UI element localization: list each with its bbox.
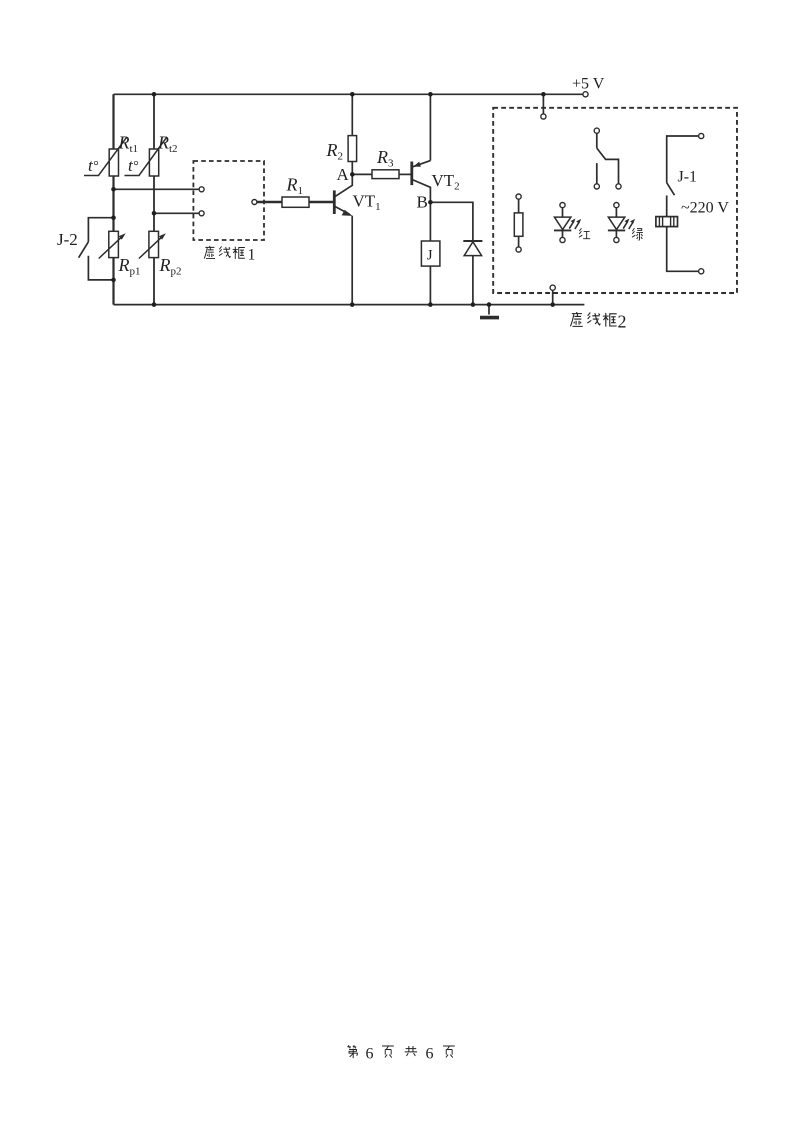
footer page number — [348, 1045, 455, 1062]
wire left bus vertical — [112, 94, 114, 304]
svg-text:J-2: J-2 — [57, 230, 78, 249]
resistor R4 in box2 — [514, 213, 523, 236]
wire R3 to VT2 base — [399, 173, 411, 175]
relay contact K left stub — [596, 163, 598, 184]
terminal box2 bottom — [550, 285, 555, 290]
terminal box1 in1 — [199, 187, 204, 192]
switch J-1 wiring — [667, 136, 699, 271]
terminal contact K right — [616, 184, 621, 189]
wire tap 2 to box1 — [154, 212, 199, 214]
resistor R3 — [372, 170, 399, 179]
terminal J-1 top — [699, 133, 704, 138]
ground — [480, 316, 499, 320]
wire VT1 collector — [335, 174, 353, 196]
wire node B to diode branch — [430, 202, 473, 241]
thermistor Rt2 — [125, 137, 168, 176]
svg-text:Rp2: Rp2 — [159, 255, 182, 278]
node top rail bus2 — [152, 92, 157, 97]
svg-text:6: 6 — [366, 1046, 374, 1063]
wire diode bottom lead — [472, 242, 474, 305]
wire box2 bottom stub — [552, 290, 554, 304]
wire bottom rail — [114, 304, 585, 306]
label frame2 (xu xian kuang 2) — [570, 312, 626, 332]
svg-text:VT1: VT1 — [353, 192, 381, 214]
node top rail box2 stub — [541, 92, 546, 97]
svg-text:t°: t° — [88, 156, 99, 175]
node bottom ground — [487, 302, 492, 307]
wire second bus vertical — [153, 94, 155, 304]
potentiometer Rp1 — [99, 231, 126, 258]
svg-text:R3: R3 — [376, 147, 394, 170]
resistor R2 — [348, 136, 357, 162]
terminal LED red top — [560, 203, 565, 208]
relay coil J — [421, 241, 440, 266]
node top rail VT2 emitter — [428, 92, 433, 97]
svg-text:6: 6 — [426, 1046, 434, 1063]
thermistor Rt1 — [84, 137, 127, 176]
relay contact K blade — [597, 148, 619, 184]
potentiometer Rp2 — [139, 231, 166, 258]
svg-text:Rt1: Rt1 — [118, 133, 139, 156]
relay contact K top lead — [596, 133, 598, 148]
wire tap 1 to box1 — [114, 188, 200, 190]
dashed frame 1 — [193, 161, 264, 240]
node bottom box2 stub — [550, 302, 555, 307]
svg-text:J-1: J-1 — [678, 169, 698, 186]
node tap2 — [152, 211, 157, 216]
wire VT1 emitter — [335, 206, 353, 304]
LED green — [608, 217, 635, 230]
label red (hong) — [579, 228, 590, 238]
svg-text:2: 2 — [618, 312, 627, 332]
svg-text:A: A — [337, 165, 350, 184]
wire input to R1 — [257, 201, 282, 203]
wire R1 to VT1 base — [309, 201, 333, 203]
node bottom diode — [471, 302, 476, 307]
terminal contact K common — [594, 128, 599, 133]
terminal LED red bottom — [560, 237, 565, 242]
wire R2 bottom to node A — [351, 162, 353, 175]
terminal box1 out — [252, 200, 257, 205]
terminal LED green bottom — [614, 237, 619, 242]
terminal box1 in2 — [199, 211, 204, 216]
terminal R4 top — [516, 194, 521, 199]
node B — [428, 200, 433, 205]
svg-text:R2: R2 — [326, 140, 344, 163]
svg-text:~220 V: ~220 V — [681, 200, 729, 217]
svg-text:t°: t° — [128, 156, 139, 175]
transistor VT1 — [334, 190, 352, 216]
wire red LED leads — [562, 208, 564, 238]
node bottom bus2 — [152, 302, 157, 307]
wire relay coil leads — [429, 202, 431, 304]
label frame1 (xu xian kuang 1) — [204, 246, 255, 264]
node bottom VT1 emitter — [350, 302, 355, 307]
svg-text:Rt2: Rt2 — [157, 133, 178, 156]
terminal LED green top — [614, 203, 619, 208]
wire ground stub — [488, 305, 490, 315]
svg-text:1: 1 — [248, 247, 256, 264]
node J-2 bottom — [111, 278, 116, 283]
wire top +5V rail — [114, 93, 583, 95]
svg-text:VT2: VT2 — [432, 171, 460, 193]
node J-2 top — [111, 215, 116, 220]
dashed frame 2 — [493, 108, 737, 293]
wire resistor R4 leads — [518, 199, 520, 247]
resistor R1 — [282, 197, 309, 207]
wire box2 top stub — [542, 94, 544, 114]
terminal R4 bottom — [516, 247, 521, 252]
node top rail R2 — [350, 92, 355, 97]
node A — [350, 172, 355, 177]
switch J-2 — [79, 218, 114, 280]
terminal +5V — [583, 92, 588, 97]
svg-text:R1: R1 — [286, 175, 304, 198]
terminal contact K left — [594, 184, 599, 189]
wire VT2 emitter — [412, 94, 430, 167]
svg-text:+5 V: +5 V — [572, 76, 605, 93]
label green (lv) — [632, 228, 643, 240]
svg-text:B: B — [417, 193, 428, 212]
svg-text:Rp1: Rp1 — [118, 255, 141, 278]
wire VT2 collector — [413, 180, 431, 202]
node bottom relay J — [428, 302, 433, 307]
wire R2 top lead — [351, 94, 353, 135]
heater element EH — [656, 217, 678, 227]
terminal J-1 bottom — [699, 269, 704, 274]
wire green LED leads — [615, 208, 617, 238]
terminal box2 top — [541, 114, 546, 119]
transistor VT2 — [412, 162, 421, 186]
node tap1 — [111, 187, 116, 192]
diode VD — [463, 241, 482, 256]
svg-text:J: J — [427, 248, 433, 264]
wire node A to R3 — [352, 173, 372, 175]
LED red — [554, 217, 581, 230]
